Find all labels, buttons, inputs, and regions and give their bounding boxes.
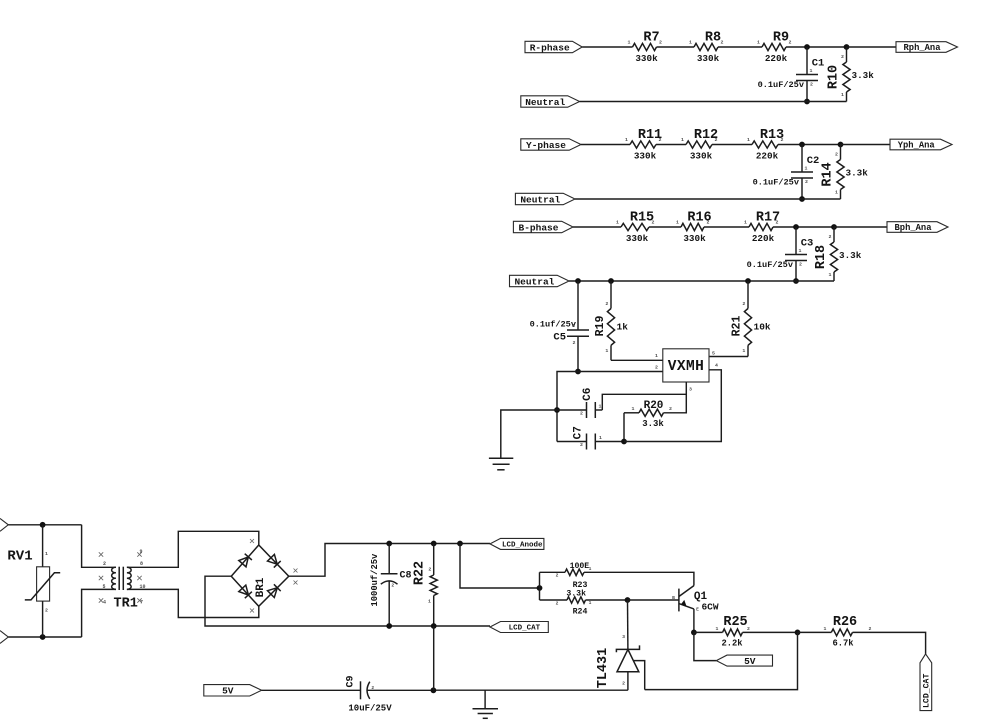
input flag stub (neutral) bottom (0, 631, 8, 644)
input flag Neutral (R-phase row) (521, 96, 580, 107)
capacitor C7 (557, 441, 587, 443)
svg-text:2: 2 (652, 220, 655, 226)
svg-text:2: 2 (747, 626, 750, 632)
svg-text:1: 1 (716, 626, 719, 632)
ground (power section) (473, 708, 499, 710)
svg-text:2: 2 (580, 411, 583, 417)
wire (657, 46, 695, 48)
diode BR1 D (L to B) (239, 585, 249, 595)
wire TL431 anode (627, 672, 629, 690)
node Q1 emitter / R25 junction (691, 630, 697, 636)
svg-text:1: 1 (824, 626, 827, 632)
svg-text:2: 2 (103, 561, 106, 567)
ground (analog section) (489, 457, 513, 459)
svg-text:2: 2 (841, 54, 844, 60)
svg-text:1: 1 (744, 220, 747, 226)
output flag Bph_Ana (887, 222, 948, 233)
capacitor C8 1000uf/25v (388, 544, 390, 574)
svg-text:1: 1 (841, 92, 844, 98)
svg-text:2: 2 (655, 365, 658, 371)
wire primary top (82, 525, 116, 568)
svg-text:1: 1 (681, 137, 684, 143)
wire R23 to Q1 collector (693, 572, 694, 585)
svg-text:R24: R24 (573, 608, 588, 617)
svg-text:R21: R21 (731, 316, 744, 337)
node RV1 bottom junction (40, 634, 46, 640)
svg-text:2: 2 (707, 220, 710, 226)
wire neutral (Y-phase row) (575, 198, 841, 200)
power flag 5V (regulator output) (716, 655, 772, 666)
node B-phase cap junction (793, 224, 799, 230)
svg-text:R-phase: R-phase (530, 42, 570, 53)
svg-text:1: 1 (757, 40, 760, 46)
svg-text:1: 1 (428, 599, 431, 605)
svg-text:4: 4 (103, 600, 106, 606)
svg-text:10k: 10k (754, 322, 771, 333)
wire LCD_Anode branch down (460, 544, 540, 589)
resistor R9 220k (762, 43, 786, 50)
svg-text:3.3k: 3.3k (846, 168, 869, 179)
resistor R15 330k (621, 223, 649, 230)
wire (718, 46, 762, 48)
svg-text:330k: 330k (683, 233, 706, 244)
svg-text:0.1uF/25v: 0.1uF/25v (747, 260, 793, 270)
svg-text:C1: C1 (812, 58, 825, 70)
svg-text:2: 2 (669, 406, 672, 412)
wire VXMH pin 3 down (664, 382, 687, 413)
svg-text:BR1: BR1 (255, 577, 267, 597)
svg-text:2: 2 (776, 220, 779, 226)
node C5 bottom junction (575, 369, 581, 375)
resistor R17 220k (749, 223, 773, 230)
svg-text:1: 1 (810, 68, 813, 74)
svg-text:1: 1 (616, 220, 619, 226)
svg-text:Rph_Ana: Rph_Ana (904, 43, 942, 53)
resistor R19 1k (vertical) (610, 281, 612, 309)
svg-text:2: 2 (799, 262, 802, 268)
wire R19 to VXMH pin 1 (611, 359, 663, 361)
svg-text:220k: 220k (765, 53, 788, 64)
wire bottom AC input (8, 636, 81, 638)
transformer TR1 (112, 567, 116, 589)
svg-text:Neutral: Neutral (514, 276, 554, 287)
svg-text:2: 2 (835, 152, 838, 158)
svg-text:2: 2 (573, 340, 576, 346)
node R10 top junction (844, 44, 850, 50)
wire to power ground (484, 690, 486, 708)
resistor R12 330k (686, 141, 712, 148)
node neutral-C5 junction (575, 278, 581, 284)
svg-text:9: 9 (139, 549, 142, 555)
svg-text:1000uf/25v: 1000uf/25v (370, 553, 380, 607)
svg-text:2: 2 (45, 608, 48, 614)
wire BR1 plus output (289, 544, 490, 577)
svg-text:5V: 5V (222, 686, 234, 697)
wire to Bph_Ana (834, 226, 887, 228)
resistor R13 220k (752, 141, 778, 148)
capacitor C2 0.1uF/25v (801, 145, 803, 173)
resistor R18 3.3k (vertical) (833, 227, 835, 242)
svg-text:1k: 1k (617, 322, 629, 333)
svg-text:C6: C6 (582, 388, 594, 401)
svg-text:220k: 220k (752, 233, 775, 244)
svg-text:1: 1 (747, 137, 750, 143)
svg-text:1: 1 (589, 600, 592, 606)
svg-text:2: 2 (789, 40, 792, 46)
svg-text:2: 2 (556, 601, 559, 607)
svg-text:LCD_CAT: LCD_CAT (923, 674, 932, 708)
svg-text:1: 1 (655, 353, 658, 359)
svg-text:1: 1 (605, 348, 608, 354)
resistor R21 10k (vertical) (747, 281, 749, 309)
svg-text:330k: 330k (626, 233, 649, 244)
svg-text:R22: R22 (413, 561, 428, 585)
svg-text:100E: 100E (570, 562, 590, 571)
svg-text:1: 1 (742, 348, 745, 354)
output flag Yph_Ana (890, 139, 952, 150)
bridge rectifier BR1 (231, 545, 289, 606)
capacitor C5 0.1uf/25v (577, 281, 579, 330)
resistor R23 100E (540, 571, 566, 573)
input flag Neutral (Y-phase row) (515, 193, 575, 204)
wire R-phase to R7 (582, 46, 632, 48)
wire (649, 226, 681, 228)
svg-text:330k: 330k (690, 151, 713, 162)
svg-text:R18: R18 (814, 245, 829, 269)
svg-text:1: 1 (589, 566, 592, 572)
wire bottom rail to VXMH pin 4 (624, 370, 721, 442)
svg-text:3.3k: 3.3k (852, 70, 875, 81)
svg-text:TR1: TR1 (114, 597, 138, 612)
svg-text:2: 2 (869, 626, 872, 632)
svg-text:5V: 5V (744, 656, 756, 667)
wire to Yph_Ana (841, 144, 891, 146)
node neutral-R19 junction (608, 278, 614, 284)
node R22 bottom (431, 623, 437, 629)
svg-text:330k: 330k (697, 53, 720, 64)
svg-text:2.2k: 2.2k (721, 638, 743, 648)
resistor R14 3.3k (vertical) (840, 145, 842, 160)
svg-text:2: 2 (721, 40, 724, 46)
svg-text:B: B (672, 595, 675, 601)
output flag LCD_CAT (490, 622, 548, 633)
node LCD_Anode branch (457, 541, 463, 547)
svg-text:2: 2 (805, 179, 808, 185)
svg-text:Yph_Ana: Yph_Ana (898, 141, 936, 151)
node R-phase cap junction (804, 44, 810, 50)
input flag stub (line) top (0, 518, 8, 531)
input flag Neutral (B-phase row) (510, 275, 570, 286)
svg-text:6.7k: 6.7k (832, 638, 854, 648)
svg-text:Neutral: Neutral (525, 97, 565, 108)
wire (656, 144, 686, 146)
transistor Q1 6CW (PNP) (678, 589, 680, 612)
wire C6 to pin3 net (602, 394, 686, 410)
output flag Rph_Ana (896, 42, 958, 53)
svg-text:LCD_CAT: LCD_CAT (509, 625, 541, 633)
svg-text:0.1uF/25v: 0.1uF/25v (753, 178, 799, 188)
shunt regulator TL431 (627, 600, 629, 649)
wire R25 junction down to feedback rail (645, 632, 798, 689)
node C8 bottom (386, 623, 392, 629)
diode BR1 D (T to R) (268, 554, 278, 564)
svg-text:R26: R26 (833, 615, 857, 630)
svg-text:B-phase: B-phase (519, 222, 559, 233)
wire TL431 ref (634, 661, 645, 690)
node C8 top (386, 541, 392, 547)
svg-text:3: 3 (622, 634, 625, 640)
varistor RV1 (42, 525, 44, 567)
svg-text:1: 1 (805, 166, 808, 172)
output flag LCD_CAT (vertical) (920, 654, 932, 711)
svg-text:2: 2 (428, 567, 431, 573)
wire Y-phase to R11 (581, 144, 630, 146)
svg-text:R15: R15 (630, 211, 654, 226)
wire to cap node (773, 226, 834, 228)
wire emitter to 5V flag (694, 632, 716, 660)
wire left rail (557, 372, 578, 442)
resistor R16 330k (681, 223, 704, 230)
svg-text:1: 1 (835, 190, 838, 196)
output flag LCD_Anode (490, 538, 544, 549)
svg-text:220k: 220k (756, 151, 779, 162)
svg-text:7: 7 (140, 600, 143, 606)
node R18 top junction (831, 224, 837, 230)
svg-text:R9: R9 (773, 31, 789, 46)
node R25/R26 junction (795, 630, 801, 636)
wire secondary bottom (127, 589, 259, 617)
wire neutral (B-phase row) (569, 280, 834, 282)
svg-text:TL431: TL431 (596, 648, 611, 689)
svg-text:2: 2 (391, 583, 394, 589)
svg-text:4: 4 (715, 363, 718, 369)
svg-text:R7: R7 (643, 31, 659, 46)
wire neutral (R-phase row) (580, 101, 847, 103)
wire C5 node to VXMH pin 2 (578, 371, 663, 373)
svg-text:1: 1 (45, 551, 48, 557)
svg-text:C3: C3 (801, 238, 814, 250)
power flag 5V (input, bottom left) (204, 685, 262, 696)
wire R24 to Q1 base (628, 599, 679, 601)
svg-text:VXMH: VXMH (668, 359, 704, 375)
wire top AC input (8, 524, 81, 526)
svg-text:R8: R8 (705, 31, 721, 46)
svg-text:2: 2 (556, 573, 559, 579)
wire R23/R24 left rail (539, 572, 541, 600)
svg-text:3.3k: 3.3k (642, 419, 664, 429)
resistor R11 330k (630, 141, 656, 148)
wire secondary top (127, 531, 259, 567)
node ground rail junction (554, 407, 560, 413)
wire R21 to VXMH pin 5 (709, 356, 748, 358)
node C1 neutral junction (804, 99, 810, 105)
svg-text:2: 2 (715, 137, 718, 143)
resistor R7 330k (633, 43, 657, 50)
svg-text:2: 2 (810, 82, 813, 88)
svg-text:1: 1 (572, 323, 575, 329)
svg-text:1: 1 (628, 40, 631, 46)
resistor R26 6.7k (798, 631, 832, 633)
op-amp U? VXMH block (663, 349, 709, 382)
svg-text:LCD_Anode: LCD_Anode (502, 542, 543, 550)
svg-text:3: 3 (689, 387, 692, 393)
svg-text:3.3k: 3.3k (839, 250, 862, 261)
svg-text:10uF/25V: 10uF/25V (348, 704, 392, 714)
node C2 neutral junction (799, 196, 805, 202)
svg-text:2: 2 (659, 137, 662, 143)
node R22 top (431, 541, 437, 547)
svg-text:2: 2 (605, 301, 608, 307)
svg-text:Neutral: Neutral (520, 194, 560, 205)
svg-text:5: 5 (102, 584, 105, 590)
wire to cap node (778, 144, 841, 146)
svg-text:1: 1 (599, 435, 602, 441)
svg-text:1: 1 (632, 406, 635, 412)
svg-text:2: 2 (742, 301, 745, 307)
svg-text:1: 1 (799, 248, 802, 254)
svg-text:C5: C5 (553, 332, 566, 344)
svg-text:1: 1 (689, 40, 692, 46)
resistor R10 3.3k (vertical) (846, 47, 848, 62)
wire B-phase to R15 (573, 226, 621, 228)
resistor R25 2.2k (694, 631, 723, 633)
node R24/TL431 junction (625, 597, 631, 603)
svg-text:2: 2 (781, 137, 784, 143)
resistor R8 330k (694, 43, 718, 50)
svg-text:E: E (696, 607, 699, 613)
capacitor C1 0.1uF/25v (806, 47, 808, 75)
svg-text:C7: C7 (573, 426, 585, 439)
svg-text:2: 2 (829, 234, 832, 240)
resistor R20 3.3k (639, 409, 664, 416)
node R20/C7 junction (621, 439, 627, 445)
svg-text:Bph_Ana: Bph_Ana (895, 223, 933, 233)
diode BR1 D (L to T) (239, 557, 249, 567)
svg-text:1: 1 (829, 272, 832, 278)
svg-text:2: 2 (580, 442, 583, 448)
capacitor C6 (557, 409, 587, 411)
node RV1 top junction (40, 522, 46, 528)
svg-text:330k: 330k (634, 151, 657, 162)
svg-text:R14: R14 (821, 162, 836, 186)
svg-text:3.3k: 3.3k (566, 589, 586, 599)
node C3 neutral junction (793, 278, 799, 284)
svg-text:R10: R10 (827, 65, 842, 89)
svg-text:RV1: RV1 (7, 549, 32, 565)
resistor R24 3.3k (540, 599, 568, 601)
node Y-phase cap junction (799, 142, 805, 148)
svg-text:1: 1 (625, 137, 628, 143)
wire primary bottom (82, 589, 116, 637)
svg-text:R19: R19 (594, 316, 607, 337)
svg-text:C8: C8 (399, 571, 411, 582)
wire (704, 226, 749, 228)
resistor R22 (vertical) (433, 544, 435, 576)
wire (712, 144, 752, 146)
node R23/R24 rail (537, 585, 543, 591)
svg-text:6CW: 6CW (701, 602, 718, 613)
svg-text:5: 5 (712, 351, 715, 357)
capacitor C3 0.1uF/25v (795, 227, 797, 255)
svg-text:0.1uF/25v: 0.1uF/25v (758, 80, 804, 90)
wire BR1 minus output (205, 576, 490, 626)
node C9 / R22 rail junction (431, 687, 437, 693)
svg-text:8: 8 (140, 561, 143, 567)
wire to ground (501, 410, 557, 458)
svg-text:2: 2 (622, 681, 625, 687)
wire to Rph_Ana (847, 46, 897, 48)
input flag R-phase (525, 41, 582, 52)
svg-text:330k: 330k (635, 53, 658, 64)
wire to cap node (786, 46, 847, 48)
node R14 top junction (838, 142, 844, 148)
input flag B-phase (513, 221, 573, 232)
capacitor C9 10uF/25V (262, 689, 361, 691)
node neutral-R21 junction (745, 278, 751, 284)
svg-text:0.1uf/25v: 0.1uf/25v (530, 320, 576, 330)
svg-text:2: 2 (659, 40, 662, 46)
svg-text:R25: R25 (723, 615, 747, 630)
input flag Y-phase (521, 139, 581, 150)
svg-text:C2: C2 (807, 155, 820, 167)
svg-text:2: 2 (371, 685, 374, 691)
svg-text:C9: C9 (346, 675, 357, 687)
wire R22 rail down (433, 626, 435, 690)
wire ground rail (bottom) (433, 689, 628, 691)
svg-text:1: 1 (676, 220, 679, 226)
diode BR1 D (B to R) (268, 588, 278, 598)
svg-text:R20: R20 (644, 400, 664, 412)
svg-text:Y-phase: Y-phase (526, 140, 566, 151)
svg-text:1: 1 (599, 404, 602, 410)
